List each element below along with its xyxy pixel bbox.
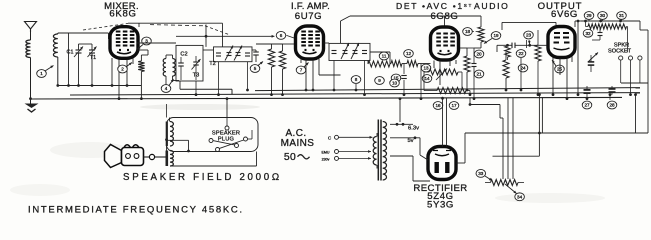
svg-text:6G8G: 6G8G — [431, 11, 459, 22]
svg-text:INTERMEDIATE FREQUENCY 458KC: INTERMEDIATE FREQUENCY 458KC. — [28, 204, 244, 215]
svg-text:30: 30 — [600, 13, 606, 18]
ground — [25, 104, 39, 109]
node 23 — [524, 31, 534, 39]
wire — [256, 43, 283, 45]
wire plate line — [497, 44, 512, 46]
wire — [420, 64, 422, 99]
wire — [324, 42, 330, 44]
wire — [465, 132, 648, 134]
svg-text:22: 22 — [518, 51, 524, 56]
wire rail upper-left — [58, 85, 142, 87]
wire heater drop — [512, 98, 514, 179]
wire pins V4 — [552, 58, 554, 95]
node 2 — [118, 65, 128, 73]
wire — [195, 81, 197, 95]
wire — [464, 133, 466, 163]
switch blade — [219, 140, 243, 148]
capacitor electrolytic — [588, 61, 595, 63]
transformer T4 core — [377, 120, 379, 181]
resistor R12 — [535, 45, 541, 61]
wire — [621, 82, 648, 84]
wire — [480, 16, 482, 27]
wire — [364, 61, 366, 95]
wire — [339, 136, 373, 138]
node 31 — [617, 12, 627, 20]
svg-text:18: 18 — [465, 29, 471, 34]
capacitor trimmer — [225, 46, 233, 61]
svg-text:12: 12 — [406, 51, 412, 56]
node 10 — [390, 79, 400, 87]
wire heater drop — [470, 104, 500, 106]
wire — [458, 71, 462, 73]
wire — [390, 63, 391, 65]
svg-text:2: 2 — [121, 67, 124, 72]
wire — [390, 137, 420, 139]
capacitor — [253, 51, 259, 53]
wire — [218, 62, 220, 95]
node 16 — [433, 102, 443, 110]
wire — [165, 55, 167, 59]
node 32 — [583, 29, 593, 37]
terminal — [335, 150, 339, 154]
resistor R1 — [138, 61, 144, 72]
svg-text:C1: C1 — [67, 50, 74, 56]
resistor R7 volume — [429, 69, 458, 75]
plug contact — [225, 126, 229, 130]
node 27 — [582, 101, 592, 109]
svg-text:T1: T1 — [90, 55, 96, 61]
wire — [399, 99, 401, 122]
wire det to output — [502, 21, 556, 23]
capacitor — [472, 63, 477, 65]
plug contact — [235, 144, 239, 148]
wire — [271, 44, 273, 49]
capacitor — [598, 32, 603, 34]
resistor R6 — [407, 61, 418, 67]
wire pointer — [552, 60, 556, 66]
wire gang dashed — [83, 23, 128, 30]
node 25 — [555, 65, 565, 73]
tube V4 6V6G — [548, 27, 575, 58]
wire — [647, 30, 649, 133]
wire pointer — [485, 176, 492, 181]
wire — [507, 44, 509, 47]
wire — [390, 123, 413, 125]
node 15 — [391, 74, 401, 82]
svg-text:50: 50 — [284, 152, 296, 163]
terminal — [335, 135, 339, 139]
capacitor coupling — [511, 43, 513, 49]
node 4 — [161, 85, 171, 93]
wire — [639, 21, 641, 30]
node 34 — [515, 193, 525, 201]
plug contact — [216, 148, 220, 152]
capacitor trimmer — [234, 46, 242, 61]
wire top line — [350, 15, 445, 17]
wire — [575, 20, 581, 22]
switch blade — [213, 141, 235, 145]
wire — [586, 93, 588, 100]
wire — [585, 21, 587, 27]
svg-text:27: 27 — [584, 103, 590, 108]
resistor R5 — [391, 61, 402, 67]
capacitor C1 trimmer — [76, 49, 82, 51]
resistor R2 — [268, 49, 274, 67]
plug contact — [209, 139, 213, 143]
svg-text:11: 11 — [382, 54, 387, 59]
coil L1 antenna — [26, 40, 31, 58]
coil T1 secondary — [53, 34, 57, 57]
wire — [30, 29, 32, 40]
svg-text:34: 34 — [517, 194, 523, 199]
capacitor C2 — [178, 62, 184, 64]
node 28 — [607, 101, 617, 109]
wire — [226, 99, 228, 118]
tube V3 6G8G — [431, 27, 459, 60]
wire — [166, 104, 168, 118]
svg-text:SOCKET: SOCKET — [608, 48, 632, 54]
svg-text:T2: T2 — [209, 61, 216, 67]
resistor R13 humdinger — [491, 180, 519, 186]
wire — [57, 57, 59, 86]
wire — [456, 162, 465, 164]
svg-text:EMU: EMU — [322, 151, 330, 155]
wire grid lead — [58, 32, 109, 34]
svg-text:6: 6 — [280, 33, 283, 38]
node 29 — [584, 12, 594, 20]
wire — [226, 118, 228, 127]
svg-text:10: 10 — [392, 81, 398, 86]
capacitor trimmer T1 — [89, 49, 95, 51]
wire — [577, 21, 579, 95]
node 33 — [476, 169, 486, 177]
svg-text:20: 20 — [476, 52, 482, 57]
socket pin — [619, 56, 623, 60]
svg-text:17: 17 — [451, 103, 457, 108]
svg-text:29: 29 — [586, 13, 592, 18]
svg-text:6K8G: 6K8G — [109, 9, 136, 20]
coil field 2 — [170, 151, 173, 167]
smudge — [140, 104, 260, 110]
svg-text:DET •AVC •1STAUDIO: DET •AVC •1STAUDIO — [396, 1, 509, 11]
wire — [287, 35, 296, 38]
wire — [144, 156, 150, 158]
wire — [403, 80, 405, 95]
wire pointer — [138, 45, 144, 50]
wire — [538, 95, 540, 157]
svg-text:8: 8 — [355, 77, 358, 82]
shield box T3 — [176, 45, 203, 81]
wire — [205, 25, 207, 47]
svg-text:6.3v: 6.3v — [408, 125, 419, 131]
wire — [339, 151, 372, 153]
svg-text:5: 5 — [254, 66, 257, 71]
plug box — [167, 118, 259, 152]
antenna A1 — [25, 22, 37, 33]
tube V1 6K8G — [110, 27, 138, 59]
resistor R4 — [368, 61, 390, 67]
capacitor trimmer — [351, 43, 359, 59]
svg-text:23: 23 — [526, 33, 532, 38]
svg-text:32: 32 — [585, 31, 591, 36]
svg-text:31: 31 — [619, 13, 625, 18]
wire plate — [137, 42, 177, 44]
wire — [137, 49, 149, 51]
wire — [376, 133, 378, 137]
wire pointer — [127, 63, 133, 67]
svg-text:19: 19 — [493, 33, 499, 38]
resistor R3 — [279, 51, 285, 69]
wire — [370, 51, 390, 53]
svg-text:7: 7 — [300, 68, 303, 73]
wire — [57, 33, 59, 34]
capacitor — [245, 52, 250, 54]
wire pointer — [484, 39, 492, 44]
svg-text:28: 28 — [609, 103, 615, 108]
node 1 — [37, 70, 47, 78]
wire pointer — [45, 66, 54, 72]
svg-text:MAINS: MAINS — [281, 138, 315, 149]
node 9 — [375, 77, 385, 85]
node 30 — [598, 12, 608, 20]
node 18 — [463, 28, 473, 36]
resistor R14 — [505, 46, 511, 57]
shield box T2 — [214, 47, 253, 62]
wire — [282, 44, 284, 51]
socket pin — [638, 56, 642, 60]
wire — [30, 58, 32, 99]
coil T4 secondary — [383, 122, 387, 181]
wire — [171, 165, 257, 167]
wire — [480, 42, 482, 48]
wire — [91, 44, 93, 50]
svg-text:C2: C2 — [180, 51, 187, 57]
wire rail mid — [180, 88, 232, 90]
wire — [590, 55, 592, 62]
svg-text:14: 14 — [424, 76, 430, 81]
node 11 — [379, 52, 389, 60]
wire — [165, 138, 168, 141]
terminal — [335, 156, 339, 160]
node 5 — [250, 65, 260, 73]
resistor R8 — [437, 88, 466, 94]
wire — [140, 55, 142, 61]
wire — [340, 21, 342, 43]
wire pointer — [169, 79, 174, 86]
shield box IFT2 — [329, 43, 370, 60]
wire — [466, 48, 468, 56]
node 7 — [296, 66, 306, 74]
node 3 — [142, 37, 152, 45]
wire — [635, 95, 637, 133]
svg-text:33: 33 — [478, 171, 484, 176]
node 22 — [516, 50, 526, 58]
resistor R9 — [464, 56, 470, 72]
svg-text:9: 9 — [378, 78, 381, 83]
wire — [248, 138, 253, 140]
wire grid — [176, 35, 275, 37]
wire — [473, 48, 475, 64]
wire pointer — [304, 63, 309, 68]
tube V2 6U7G — [296, 26, 324, 59]
wire — [485, 182, 491, 184]
wire pointer — [505, 184, 517, 194]
wire — [390, 155, 413, 157]
svg-text:5Y3G: 5Y3G — [427, 199, 454, 210]
wire — [355, 84, 357, 90]
node 20 — [474, 50, 484, 58]
svg-text:4: 4 — [165, 86, 168, 91]
wire — [247, 62, 249, 90]
svg-text:SPEAKER FIELD 2000Ω: SPEAKER FIELD 2000Ω — [123, 172, 282, 183]
node 17 — [449, 102, 459, 110]
wire B+ rail — [255, 88, 640, 91]
coil T3 secondary — [173, 59, 176, 77]
wire B- rail — [70, 93, 640, 95]
wire — [195, 56, 197, 62]
wire — [505, 52, 507, 60]
socket pin — [628, 56, 632, 60]
capacitor — [401, 75, 407, 77]
wire pins V2 — [300, 59, 302, 63]
capacitor trimmer — [193, 61, 199, 63]
wire — [169, 118, 171, 122]
wire — [537, 30, 539, 45]
svg-text:6V6G: 6V6G — [551, 9, 578, 20]
wire — [78, 44, 80, 50]
svg-text:6U7G: 6U7G — [295, 11, 322, 22]
wire — [599, 27, 601, 33]
wire heater drop — [507, 98, 509, 179]
tube V5 rectifier — [428, 147, 456, 180]
capacitor electrolytic C27 — [609, 88, 616, 90]
svg-text:21: 21 — [476, 72, 482, 77]
capacitor — [332, 50, 337, 52]
wire — [627, 26, 628, 28]
coil output transformer secondary — [608, 24, 627, 29]
svg-text:230v: 230v — [322, 157, 330, 161]
wire pointer dashed — [472, 31, 479, 33]
wire — [493, 155, 540, 157]
capacitor electrolytic C26 — [584, 89, 591, 91]
wire heater pair — [442, 98, 444, 147]
wire — [620, 60, 622, 83]
plug contact — [244, 137, 248, 141]
svg-text:13: 13 — [423, 66, 429, 71]
wire — [165, 76, 167, 86]
node 24 — [518, 64, 528, 72]
node 21 — [474, 70, 484, 78]
wire — [203, 49, 214, 51]
wire — [333, 61, 335, 91]
node 6 — [276, 31, 286, 39]
node 13 — [421, 64, 431, 72]
wire — [180, 57, 182, 63]
wire — [252, 49, 256, 51]
capacitor — [216, 52, 221, 54]
wire — [339, 157, 372, 159]
wire — [581, 20, 640, 22]
speaker SP1 — [105, 145, 122, 168]
svg-text:5v: 5v — [407, 138, 413, 144]
wire — [403, 64, 405, 75]
node 12 — [404, 50, 414, 58]
wire — [30, 99, 32, 104]
capacitor trimmer — [341, 43, 349, 59]
svg-text:16: 16 — [435, 103, 441, 108]
wire ground bus — [30, 97, 622, 99]
wire pointer — [588, 53, 598, 63]
wire — [68, 33, 70, 86]
node 8 — [351, 76, 361, 84]
resistor R11 — [503, 60, 509, 78]
coil T4 primary — [373, 137, 376, 166]
resistor R10 — [478, 27, 484, 42]
capacitor — [362, 50, 367, 52]
node 14 — [422, 75, 432, 83]
coil field 1 — [170, 122, 173, 147]
wire pins V3 — [433, 61, 435, 69]
wire top cap — [138, 23, 140, 27]
wire — [520, 58, 522, 90]
coil output transformer primary — [588, 24, 608, 29]
wire — [419, 138, 421, 155]
svg-text:1: 1 — [40, 71, 43, 76]
wire — [79, 43, 93, 45]
wire pointer — [258, 62, 263, 66]
wire pointer — [528, 40, 531, 44]
wire pins V1 — [111, 58, 113, 86]
wire — [424, 71, 429, 73]
coil T3 primary — [163, 59, 166, 77]
node 19 — [491, 32, 501, 40]
wire — [588, 19, 590, 21]
